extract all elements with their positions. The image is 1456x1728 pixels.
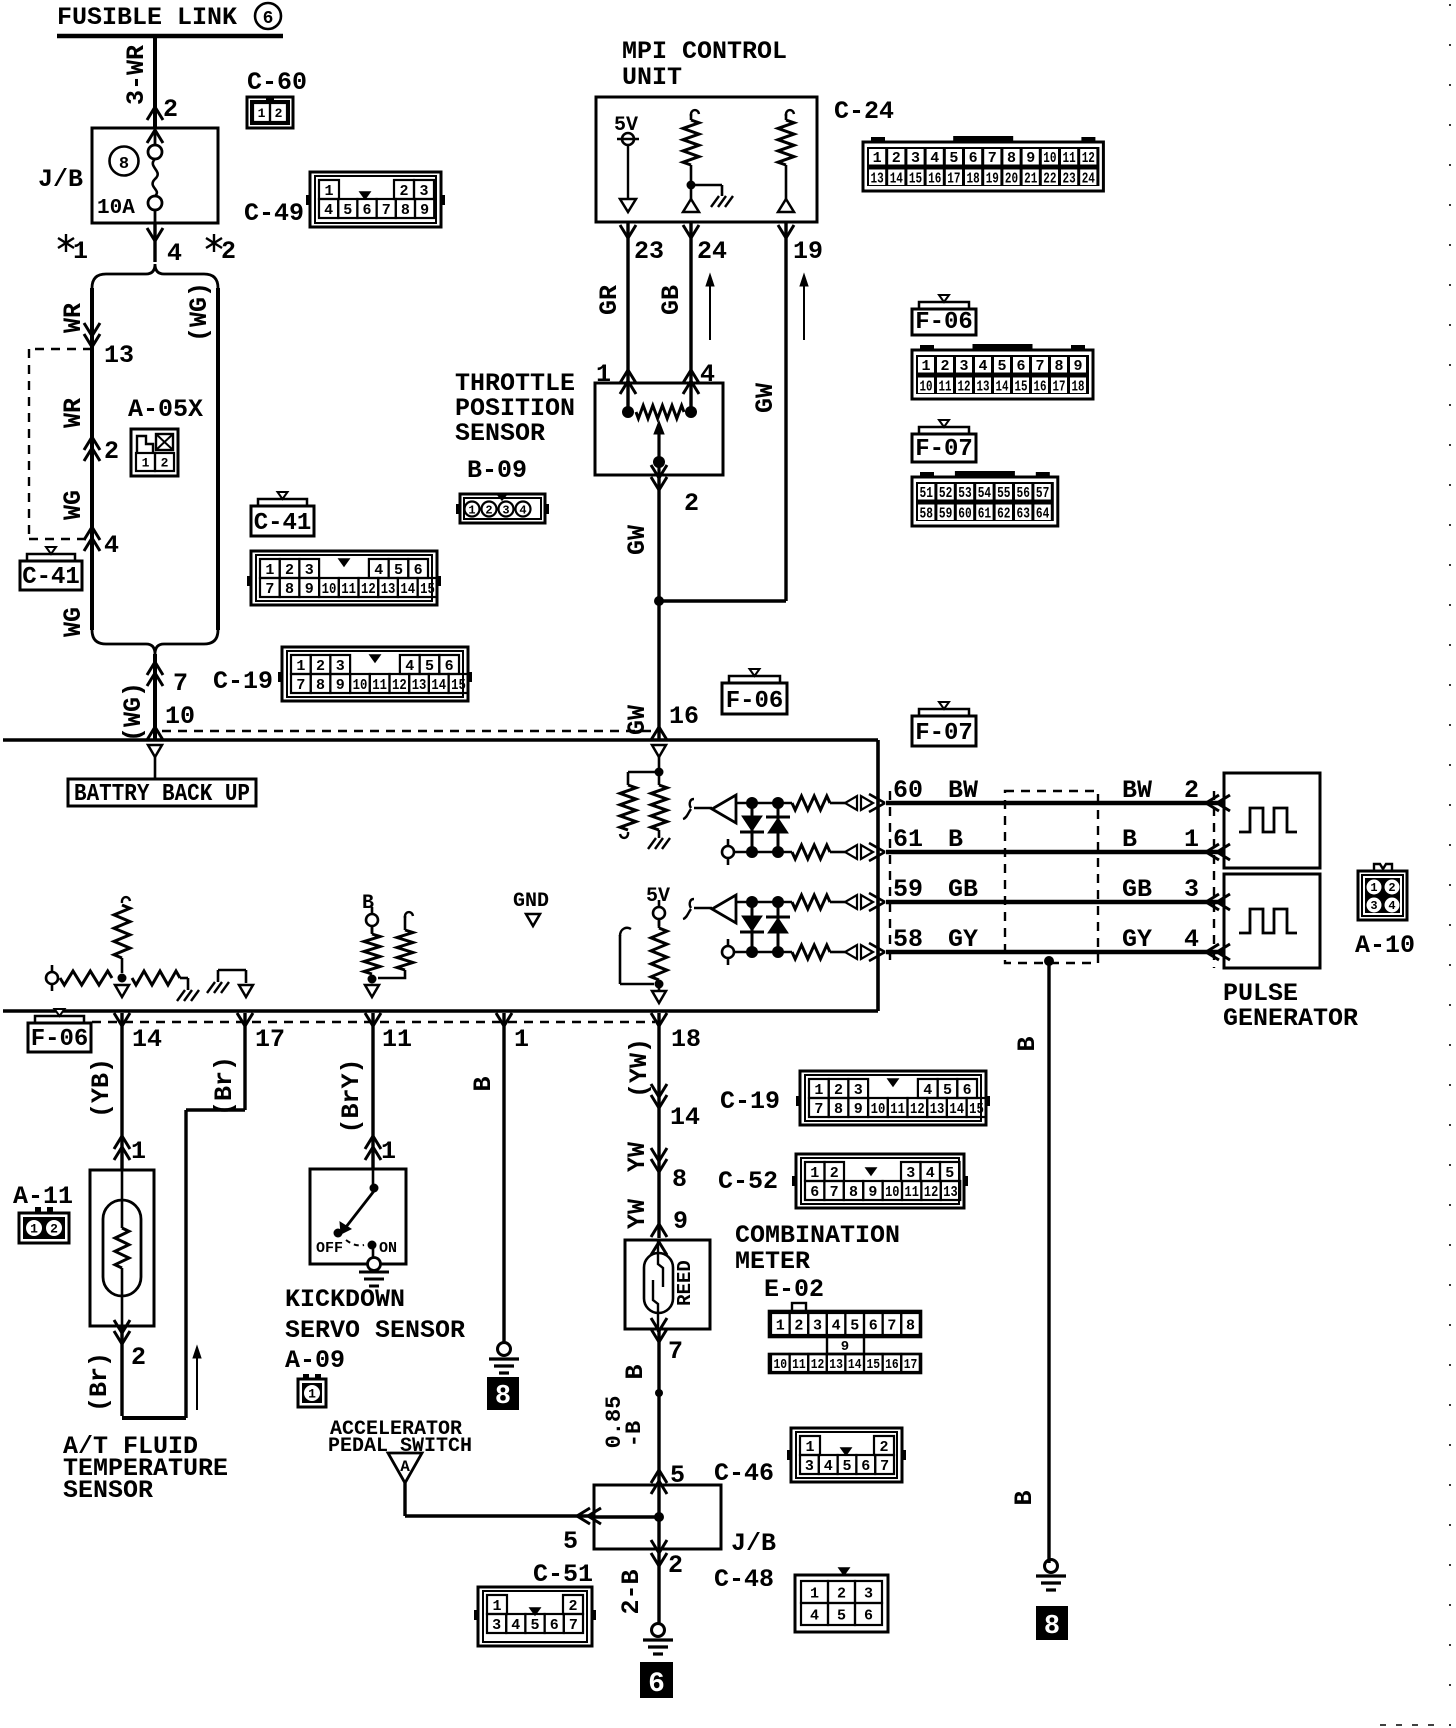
connector C-24 (863, 142, 1103, 191)
svg-text:2: 2 (568, 1598, 577, 1615)
ground G-3 (1045, 1560, 1058, 1573)
svg-text:3: 3 (336, 658, 345, 675)
wire GR 23 to TPS 1 (626, 223, 629, 412)
svg-text:11: 11 (890, 1101, 905, 1118)
svg-text:B: B (948, 825, 963, 854)
connector C-49 (310, 172, 441, 227)
svg-text:58: 58 (893, 925, 923, 954)
svg-text:1: 1 (921, 358, 930, 375)
svg-text:9: 9 (420, 202, 429, 219)
svg-text:4: 4 (810, 1607, 819, 1624)
svg-text:8: 8 (495, 1382, 511, 1412)
wire B shield drain (1047, 961, 1050, 1563)
pin marker 16 (651, 727, 667, 740)
connector label F-07 right (912, 716, 976, 746)
buffer symbols 58 (845, 945, 857, 959)
svg-text:4: 4 (978, 358, 987, 375)
connector label F-06 mid (722, 683, 787, 714)
svg-text:15: 15 (420, 581, 435, 598)
svg-text:8: 8 (285, 581, 294, 598)
svg-text:C-49: C-49 (244, 199, 304, 228)
svg-text:REED: REED (674, 1260, 696, 1306)
svg-text:6: 6 (550, 1617, 559, 1634)
output triangle pin 17 (239, 985, 253, 997)
svg-text:2: 2 (834, 1082, 843, 1099)
svg-text:6: 6 (963, 1082, 972, 1099)
transmission control unit box (3, 738, 878, 742)
connector A-10 (1358, 871, 1407, 920)
pin marker 8 C-52 (651, 1159, 667, 1172)
svg-text:12: 12 (1082, 150, 1095, 167)
connector label F-06 lower (28, 1023, 91, 1052)
pin chevron 2 C-48 (651, 1540, 667, 1553)
svg-text:3: 3 (502, 504, 509, 518)
svg-text:2: 2 (285, 562, 294, 579)
svg-text:1: 1 (814, 1082, 823, 1099)
svg-text:15: 15 (969, 1101, 984, 1118)
svg-text:4: 4 (374, 562, 383, 579)
buffer symbols 60 (845, 796, 857, 810)
accelerator pedal switch symbol A (388, 1453, 422, 1483)
fuse 8 10A (110, 147, 139, 176)
svg-text:5: 5 (943, 1082, 952, 1099)
ground ref 6 (640, 1662, 673, 1698)
svg-text:B: B (1013, 1036, 1042, 1051)
svg-text:2: 2 (399, 183, 408, 200)
svg-text:C-48: C-48 (714, 1565, 774, 1594)
svg-text:6: 6 (445, 658, 454, 675)
svg-text:14: 14 (431, 677, 446, 694)
connector C-48 (795, 1575, 888, 1632)
svg-text:(Br): (Br) (210, 1056, 239, 1116)
svg-text:1: 1 (142, 456, 150, 471)
output triangle pin 11 (365, 985, 379, 997)
svg-text:5: 5 (997, 358, 1006, 375)
svg-text:BW: BW (1122, 776, 1152, 805)
svg-text:7: 7 (880, 1458, 889, 1475)
resistor R-61 (792, 845, 830, 859)
svg-text:7: 7 (569, 1617, 578, 1634)
wire (YW) pin18 combination meter (657, 1013, 660, 1238)
svg-text:C-51: C-51 (533, 1560, 593, 1589)
svg-text:57: 57 (1036, 485, 1049, 502)
buffer symbols 59 (845, 895, 857, 909)
svg-text:2: 2 (275, 106, 283, 121)
pull-up resistor R-a (691, 110, 699, 116)
output triangle pin 14 (115, 985, 129, 997)
pulse generator box 1 (1224, 773, 1320, 868)
svg-text:18: 18 (1072, 378, 1085, 395)
connector C-52 (796, 1154, 964, 1208)
svg-text:1: 1 (810, 1585, 819, 1602)
svg-text:4: 4 (511, 1617, 520, 1634)
svg-text:9: 9 (1026, 150, 1035, 167)
svg-text:B: B (469, 1076, 498, 1091)
svg-text:4: 4 (1184, 925, 1199, 954)
shield drain node (1044, 956, 1054, 966)
svg-text:1: 1 (265, 562, 274, 579)
wire (WG) to pin 7 (153, 654, 157, 740)
svg-text:8: 8 (1044, 1612, 1060, 1642)
svg-text:24: 24 (1082, 170, 1095, 187)
svg-text:11: 11 (1063, 150, 1076, 167)
svg-text:7: 7 (265, 581, 274, 598)
svg-text:-B: -B (622, 1421, 647, 1447)
connector boundary dashed F-06 lower (92, 1021, 655, 1023)
svg-text:YW: YW (623, 1199, 652, 1229)
svg-text:13: 13 (829, 1357, 843, 1373)
svg-text:F-06: F-06 (726, 688, 784, 715)
svg-text:9: 9 (673, 1207, 688, 1236)
output triangle battery backup (148, 745, 162, 757)
svg-text:59: 59 (893, 875, 923, 904)
svg-text:23: 23 (634, 237, 664, 266)
svg-text:8: 8 (401, 202, 410, 219)
ground G-2 (652, 1624, 665, 1637)
kickdown servo sensor box (310, 1169, 406, 1264)
svg-text:WG: WG (59, 607, 88, 637)
connector A-09 (298, 1379, 326, 1407)
svg-text:15: 15 (909, 170, 922, 187)
connector C-46 (791, 1428, 902, 1482)
wire 3-WR vertical (153, 36, 157, 128)
svg-text:14: 14 (132, 1025, 162, 1054)
svg-text:1: 1 (514, 1025, 529, 1054)
pin chevron 2 ATF (114, 1331, 130, 1344)
connector C-51 (478, 1587, 592, 1646)
svg-text:3-WR: 3-WR (122, 45, 151, 105)
flow arrow up near GW (803, 276, 805, 340)
svg-text:C-19: C-19 (720, 1087, 780, 1116)
svg-text:1: 1 (810, 1165, 819, 1182)
wire WR left branch (90, 288, 94, 630)
svg-text:58: 58 (920, 505, 933, 522)
connector label F-07 upper (912, 434, 976, 462)
svg-text:6: 6 (263, 9, 274, 29)
pin chevron 23 (620, 225, 636, 238)
svg-text:17: 17 (904, 1357, 918, 1373)
svg-text:2-B: 2-B (617, 1569, 646, 1614)
svg-text:5: 5 (837, 1607, 846, 1624)
svg-text:18: 18 (967, 170, 980, 187)
svg-text:10A: 10A (97, 197, 135, 220)
svg-text:12: 12 (361, 581, 376, 598)
svg-text:60: 60 (893, 776, 923, 805)
svg-text:4: 4 (167, 239, 182, 268)
svg-text:6: 6 (648, 1669, 665, 1700)
resistor R-59 (792, 895, 830, 909)
ground ref 8 right (1036, 1606, 1068, 1640)
svg-text:3: 3 (864, 1585, 873, 1602)
svg-text:1: 1 (381, 1137, 396, 1166)
pin chevron 7 meter (651, 1329, 667, 1342)
svg-text:B: B (1122, 825, 1137, 854)
svg-text:4: 4 (824, 1458, 833, 1475)
MPI control unit box U-MPI (596, 97, 817, 222)
pin 59 edge (869, 893, 885, 902)
svg-text:5: 5 (563, 1527, 578, 1556)
svg-text:C-24: C-24 (834, 97, 894, 126)
svg-text:22: 22 (1043, 170, 1056, 187)
switch kickdown (372, 1169, 375, 1186)
resistor R-g (371, 926, 374, 934)
svg-text:16: 16 (885, 1357, 899, 1373)
svg-text:12: 12 (958, 378, 971, 395)
svg-text:20: 20 (1005, 170, 1018, 187)
svg-text:10: 10 (353, 677, 368, 694)
throttle position sensor box (595, 383, 723, 475)
svg-text:SENSOR: SENSOR (455, 419, 545, 448)
svg-text:5: 5 (842, 1458, 851, 1475)
wire B meter to J/B (657, 1329, 660, 1485)
pin 60 edge (869, 794, 885, 803)
svg-text:14: 14 (400, 581, 415, 598)
svg-text:15: 15 (451, 677, 466, 694)
svg-text:1: 1 (73, 237, 88, 266)
svg-text:SENSOR: SENSOR (63, 1476, 153, 1505)
svg-text:E-02: E-02 (764, 1275, 824, 1304)
svg-text:11: 11 (905, 1184, 919, 1201)
svg-text:GENERATOR: GENERATOR (1223, 1004, 1358, 1033)
svg-text:9: 9 (305, 581, 314, 598)
svg-text:BW: BW (948, 776, 978, 805)
svg-text:GB: GB (948, 875, 978, 904)
svg-text:1: 1 (131, 1137, 146, 1166)
svg-text:3: 3 (813, 1317, 822, 1334)
wire GW from TPS 2 (657, 475, 660, 740)
pin chevron 17 (237, 1013, 253, 1026)
svg-text:9: 9 (841, 1339, 849, 1355)
svg-text:5: 5 (425, 658, 434, 675)
svg-text:3: 3 (1184, 875, 1199, 904)
svg-text:GW: GW (751, 383, 780, 413)
svg-text:11: 11 (372, 677, 387, 694)
pin marker 4 below J/B (147, 228, 163, 241)
flow arrow up near GB (709, 276, 711, 340)
svg-text:2: 2 (163, 95, 178, 124)
svg-text:7: 7 (382, 202, 391, 219)
svg-text:8: 8 (1007, 150, 1016, 167)
note *2 (213, 234, 215, 252)
svg-text:1: 1 (1370, 881, 1377, 895)
svg-text:11: 11 (792, 1357, 806, 1373)
node junction R-a (687, 181, 696, 190)
svg-text:C-52: C-52 (718, 1167, 778, 1196)
note *1 (65, 234, 67, 252)
resistor R-h (405, 912, 413, 918)
svg-text:13: 13 (977, 378, 990, 395)
svg-text:12: 12 (392, 677, 407, 694)
svg-text:1: 1 (296, 658, 305, 675)
svg-text:10: 10 (322, 581, 337, 598)
connector E-02 (769, 1311, 921, 1337)
svg-text:51: 51 (920, 485, 933, 502)
svg-text:F-07: F-07 (915, 436, 973, 463)
svg-text:14: 14 (996, 378, 1009, 395)
svg-text:13: 13 (104, 341, 134, 370)
svg-text:(BrY): (BrY) (337, 1058, 366, 1133)
svg-text:A-09: A-09 (285, 1346, 345, 1375)
svg-text:4: 4 (832, 1317, 841, 1334)
terminal phi 58 (722, 946, 734, 958)
svg-text:4: 4 (1388, 899, 1395, 913)
svg-text:7: 7 (668, 1337, 683, 1366)
svg-text:7: 7 (887, 1317, 896, 1334)
svg-text:WG: WG (59, 490, 88, 520)
svg-text:10: 10 (871, 1101, 886, 1118)
svg-text:17: 17 (947, 170, 960, 187)
diode D2 up (777, 803, 780, 852)
svg-text:17: 17 (255, 1025, 285, 1054)
svg-text:1: 1 (1184, 825, 1199, 854)
svg-text:8: 8 (834, 1101, 843, 1118)
wire 61 B (886, 850, 1224, 855)
connector C-60 (247, 97, 293, 128)
svg-text:(WG): (WG) (185, 282, 214, 342)
svg-text:62: 62 (997, 505, 1010, 522)
pin 61 edge (869, 843, 885, 852)
svg-text:4: 4 (700, 360, 715, 389)
svg-text:J/B: J/B (731, 1529, 776, 1558)
comparator U-1b (683, 899, 712, 919)
svg-text:OFF: OFF (316, 1240, 343, 1257)
svg-text:(Br): (Br) (85, 1352, 114, 1412)
output triangle pin 1 (526, 914, 540, 926)
svg-text:8: 8 (906, 1317, 915, 1334)
svg-text:ON: ON (379, 1240, 397, 1257)
svg-text:6: 6 (1016, 358, 1025, 375)
svg-text:GR: GR (595, 285, 624, 315)
reed switch symbol (644, 1253, 673, 1313)
resistor R-58 (792, 945, 830, 959)
svg-text:2: 2 (161, 456, 169, 471)
pin 58 edge (869, 943, 885, 952)
svg-text:14: 14 (890, 170, 903, 187)
input triangle pin 24 (690, 189, 693, 199)
svg-text:14: 14 (670, 1103, 700, 1132)
svg-text:1: 1 (492, 1598, 501, 1615)
svg-text:6: 6 (861, 1458, 870, 1475)
svg-text:9: 9 (868, 1184, 877, 1201)
wire merge brace (92, 630, 218, 654)
svg-text:7: 7 (830, 1184, 839, 1201)
svg-text:19: 19 (986, 170, 999, 187)
diode D4 up (777, 902, 780, 952)
wire GW from pin 19 (784, 223, 787, 601)
wire split brace (92, 264, 218, 288)
svg-text:61: 61 (978, 505, 991, 522)
svg-text:6: 6 (969, 150, 978, 167)
svg-text:C-60: C-60 (247, 68, 307, 97)
svg-text:10: 10 (885, 1184, 899, 1201)
svg-text:18: 18 (671, 1025, 701, 1054)
wire B pin1 ground (502, 1013, 505, 1342)
pull-up resistor R-b (786, 110, 794, 116)
connector label C-41 mid (251, 506, 314, 536)
junction J/B 2 dot (657, 1485, 660, 1549)
rail 59 top (736, 901, 792, 904)
svg-text:J/B: J/B (38, 165, 83, 194)
svg-text:8: 8 (1054, 358, 1063, 375)
svg-text:F-07: F-07 (915, 720, 973, 747)
svg-text:4: 4 (405, 658, 414, 675)
internal ground MPI (691, 184, 722, 187)
svg-text:MPI CONTROL: MPI CONTROL (622, 37, 787, 66)
svg-text:2: 2 (221, 237, 236, 266)
pin chevron 14 (114, 1013, 130, 1026)
svg-text:GB: GB (657, 285, 686, 315)
svg-text:1: 1 (324, 183, 333, 200)
diode D1 down (751, 803, 754, 852)
svg-text:4: 4 (519, 504, 526, 518)
wire 58 GY (886, 950, 1224, 955)
svg-text:(WG): (WG) (119, 682, 148, 742)
svg-text:BATTRY BACK UP: BATTRY BACK UP (74, 781, 250, 808)
junction GW (659, 599, 786, 602)
svg-text:23: 23 (1063, 170, 1076, 187)
svg-text:GY: GY (948, 925, 978, 954)
svg-text:YW: YW (623, 1142, 652, 1172)
svg-text:11: 11 (382, 1025, 412, 1054)
bus bar fusible link (57, 34, 283, 39)
svg-text:6: 6 (864, 1607, 873, 1624)
svg-text:B-09: B-09 (467, 456, 527, 485)
svg-text:2: 2 (879, 1439, 888, 1456)
svg-text:SERVO SENSOR: SERVO SENSOR (285, 1316, 465, 1345)
svg-text:19: 19 (793, 237, 823, 266)
rail 60 top (736, 802, 792, 805)
svg-text:60: 60 (958, 505, 971, 522)
wire (BrY) pin11 (371, 1013, 374, 1170)
svg-text:3: 3 (1370, 899, 1377, 913)
buffer symbols 61 (845, 845, 857, 859)
connector boundary dashed F-07 right (889, 791, 891, 963)
pin marker 4 A-05X (84, 527, 100, 540)
svg-text:12: 12 (811, 1357, 825, 1373)
svg-text:C-41: C-41 (254, 510, 312, 537)
resistor R-e (658, 920, 661, 928)
svg-text:6: 6 (810, 1184, 819, 1201)
svg-text:6: 6 (414, 562, 423, 579)
wire 2-B to ground (657, 1549, 660, 1623)
svg-text:7: 7 (1035, 358, 1044, 375)
connector label F-06 upper (912, 309, 976, 335)
svg-text:UNIT: UNIT (622, 63, 682, 92)
connector boundary dashed A-05X (29, 348, 92, 350)
svg-text:9: 9 (854, 1101, 863, 1118)
svg-text:5: 5 (343, 202, 352, 219)
resistor network pin16 branch (652, 745, 666, 757)
svg-text:2: 2 (892, 150, 901, 167)
svg-text:(YW): (YW) (625, 1038, 654, 1098)
svg-text:2: 2 (316, 658, 325, 675)
rail 58 bottom (734, 951, 792, 954)
svg-text:4: 4 (923, 1082, 932, 1099)
svg-text:GND: GND (513, 890, 549, 913)
svg-text:7: 7 (296, 677, 305, 694)
svg-text:5: 5 (949, 150, 958, 167)
svg-text:24: 24 (697, 237, 727, 266)
svg-text:52: 52 (939, 485, 952, 502)
pulse generator box 2 (1224, 874, 1320, 968)
wire (WG) right branch (216, 288, 220, 630)
input triangle pin 19 (778, 199, 794, 212)
ground kickdown (372, 1249, 375, 1258)
svg-text:63: 63 (1017, 505, 1030, 522)
connector F-07 (912, 477, 1058, 526)
pin chevron 11 (365, 1013, 381, 1026)
svg-text:15: 15 (867, 1357, 881, 1373)
